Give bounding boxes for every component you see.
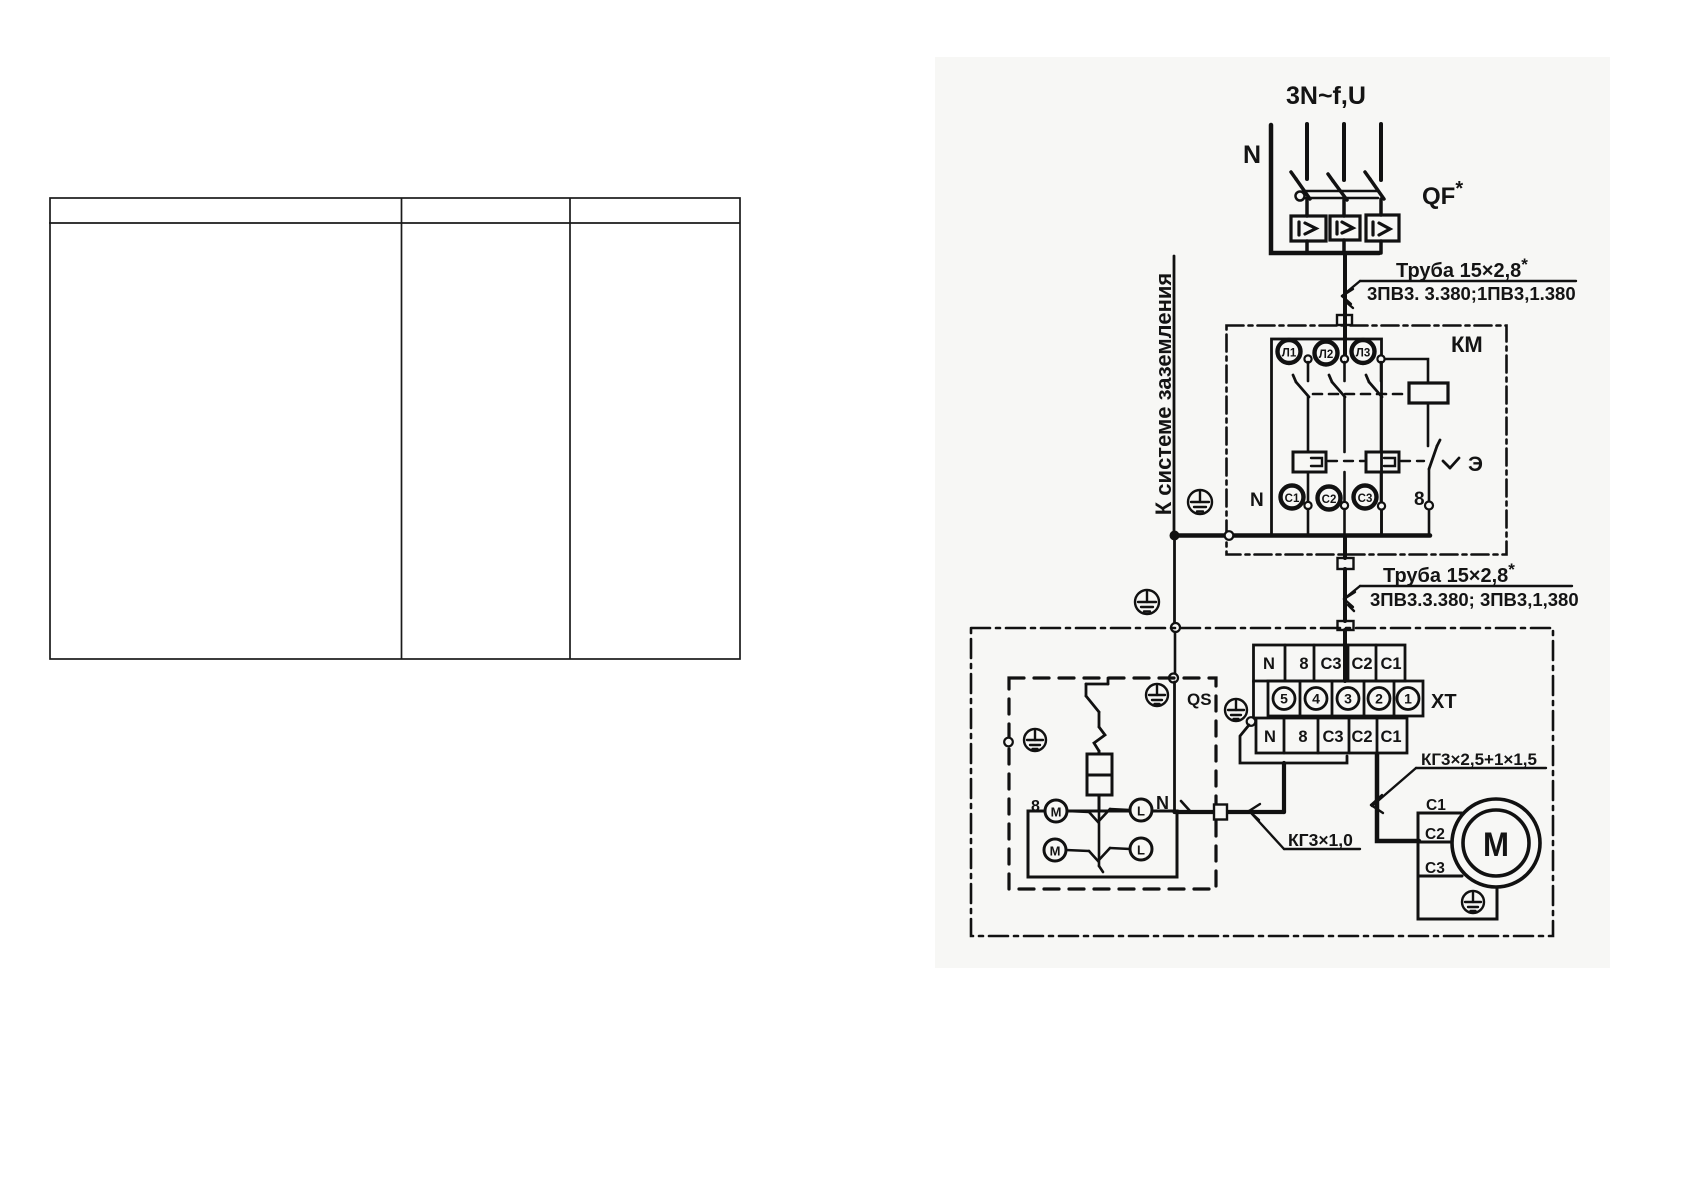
svg-text:КМ: КМ: [1451, 332, 1483, 357]
wire heater drops: [1307, 472, 1310, 501]
wire feeder drop from QF: [1343, 255, 1347, 316]
svg-text:ХТ: ХТ: [1431, 691, 1457, 713]
lamp L1: [1130, 799, 1152, 821]
ground terminal node at XT: [1247, 717, 1256, 726]
svg-text:С2: С2: [1351, 655, 1372, 673]
QS panel box (dashed): [1009, 678, 1216, 889]
svg-text:КГ3×1,0: КГ3×1,0: [1288, 830, 1353, 850]
conduit bushing 2: [1338, 558, 1354, 569]
svg-text:8: 8: [1031, 798, 1040, 815]
QS switch: [1086, 678, 1108, 751]
wire ground link below XT: [1240, 725, 1347, 763]
PE symbol in motor box: [1462, 891, 1484, 913]
terminal C2: [1318, 487, 1341, 510]
wire pole drops: [1307, 397, 1310, 452]
svg-text:С2: С2: [1425, 826, 1445, 843]
contactor KM body: [1272, 339, 1382, 535]
svg-text:М: М: [1050, 844, 1061, 859]
node circle on QS panel edge: [1169, 674, 1178, 683]
terminal C1: [1281, 486, 1304, 509]
svg-text:8: 8: [1414, 489, 1425, 510]
svg-text:С1: С1: [1285, 493, 1300, 505]
selector contact: [1066, 809, 1130, 872]
svg-text:Л3: Л3: [1356, 348, 1370, 360]
wire Л3 to coil: [1385, 359, 1428, 383]
terminal block XT bottom row: [1254, 681, 1408, 753]
circuit breaker QF pole-2 blade: [1328, 174, 1347, 200]
svg-text:КГ3×2,5+1×1,5: КГ3×2,5+1×1,5: [1421, 750, 1537, 769]
terminal Л3: [1352, 340, 1375, 363]
conduit bushing 3: [1338, 621, 1354, 630]
node N label (KM): [1250, 490, 1264, 511]
PE symbol at QS left: [1024, 729, 1046, 751]
svg-text:8: 8: [1298, 728, 1307, 746]
node N label: [1243, 141, 1261, 169]
svg-text:Э: Э: [1468, 453, 1483, 476]
node circle on enclosure edge: [1171, 623, 1180, 632]
neutral bus wire: [1174, 533, 1430, 538]
lamp M1: [1045, 800, 1067, 822]
KM main contact 2: [1343, 362, 1346, 381]
ground system riser wire: [1173, 256, 1176, 535]
label QS: [1187, 690, 1212, 709]
cable marker КГ3х1,0: [1249, 804, 1360, 849]
svg-text:С3: С3: [1322, 728, 1343, 746]
screw terminals 5 4 3 2 1: [1273, 688, 1419, 710]
node 8 label (KM): [1414, 489, 1425, 510]
svg-text:N: N: [1156, 793, 1169, 813]
coil KM: [1409, 383, 1448, 403]
wire feeder below KM: [1343, 538, 1347, 558]
wire neutral drop in QS: [1173, 682, 1176, 812]
bottom pivot circles: [1304, 502, 1433, 510]
wire N cable rise to XT: [1282, 763, 1286, 812]
svg-text:М: М: [1051, 805, 1062, 820]
wire phase B: [1342, 124, 1346, 180]
PE symbol near KM: [1188, 490, 1212, 514]
wire phase A: [1305, 124, 1309, 179]
cable marker: Труба 15x2,8 / 3ПВ3 (second): [1344, 586, 1572, 611]
thermal element KK1: [1293, 452, 1326, 472]
motor M: [1452, 799, 1540, 887]
svg-text:Труба 15×2,8*: Труба 15×2,8*: [1383, 560, 1515, 587]
linkage (dashed): [1313, 393, 1407, 396]
cable marker КГ3х2,5+1х1,5: [1371, 768, 1546, 813]
label Э: [1468, 453, 1483, 476]
svg-text:Л1: Л1: [1282, 348, 1297, 360]
KM main contact 1: [1307, 362, 1310, 381]
label К системе заземления (rotated): [1151, 273, 1176, 515]
terminal Л1: [1278, 340, 1301, 363]
wire phase C: [1379, 124, 1383, 180]
wire terminal stubs to bus: [1307, 509, 1310, 534]
svg-text:С1: С1: [1426, 797, 1446, 814]
label C1 (motor): [1426, 797, 1446, 814]
svg-text:4: 4: [1312, 691, 1320, 707]
PE symbol at XT: [1225, 699, 1247, 721]
circuit breaker QF pole-1 blade: [1291, 172, 1310, 199]
svg-text:1: 1: [1404, 691, 1412, 707]
svg-text:3N~f,U: 3N~f,U: [1286, 82, 1366, 110]
svg-text:С1: С1: [1380, 655, 1401, 673]
svg-text:Труба 15×2,8*: Труба 15×2,8*: [1396, 255, 1528, 282]
svg-text:М: М: [1483, 826, 1509, 864]
wire coil to aux contact: [1427, 403, 1430, 446]
label C2 (motor): [1425, 826, 1445, 843]
QF overcurrent release 2 (I>): [1330, 216, 1360, 240]
wire ground drop to QS panel: [1174, 632, 1177, 674]
cable marker: Труба 15x2,8 / 3ПВ3: [1342, 281, 1576, 308]
svg-text:N: N: [1250, 490, 1264, 511]
QF overcurrent release 1 (I>): [1291, 216, 1326, 241]
svg-text:N: N: [1263, 655, 1275, 673]
svg-text:С2: С2: [1351, 728, 1372, 746]
svg-text:N: N: [1264, 728, 1276, 746]
svg-text:L: L: [1137, 843, 1145, 858]
QF overcurrent release 3 (I>): [1366, 215, 1399, 241]
lamp M2: [1044, 839, 1066, 861]
label C3 (motor): [1425, 860, 1445, 877]
parts table (empty): [49, 198, 740, 659]
contactor KM enclosure (dash-dot): [1227, 326, 1507, 555]
svg-text:L: L: [1137, 804, 1145, 819]
svg-text:С3: С3: [1358, 493, 1373, 505]
svg-text:N: N: [1243, 141, 1261, 169]
svg-text:С1: С1: [1380, 728, 1401, 746]
boundary node circle: [1225, 531, 1234, 540]
node circle on QS left edge: [1004, 738, 1013, 747]
wire pole stubs to releases: [1305, 199, 1309, 216]
lamp L2: [1130, 838, 1152, 860]
svg-text:3: 3: [1344, 691, 1352, 707]
svg-text:5: 5: [1280, 691, 1288, 707]
label QF*: [1422, 178, 1463, 210]
PE symbol inside QS: [1146, 684, 1168, 706]
svg-text:С3: С3: [1320, 655, 1341, 673]
terminal block XT top row: [1254, 645, 1406, 681]
svg-text:С3: С3: [1425, 860, 1445, 877]
svg-text:С2: С2: [1322, 494, 1337, 506]
QF crossbar linkage: [1296, 191, 1379, 201]
label 8 (QS): [1031, 798, 1040, 815]
thermal element KK2: [1366, 452, 1399, 472]
svg-text:К системе заземления: К системе заземления: [1151, 273, 1176, 515]
junction dot: [1170, 531, 1180, 541]
connector square: [1214, 805, 1227, 820]
wire motor cable from XT: [1377, 754, 1419, 841]
wire release outputs to bus: [1305, 241, 1309, 253]
lamp block box: [1028, 811, 1177, 877]
aux contact of KM: [1429, 440, 1459, 469]
svg-text:2: 2: [1375, 691, 1383, 707]
motor terminal box: [1418, 813, 1497, 919]
net label 3N~f,U: [1286, 82, 1366, 110]
svg-text:QS: QS: [1187, 690, 1212, 709]
wire aux drop: [1428, 469, 1431, 501]
svg-text:3ПВ3.3.380; 3ПВ3,1,380: 3ПВ3.3.380; 3ПВ3,1,380: [1370, 589, 1579, 610]
wire N (neutral riser): [1271, 125, 1379, 253]
label N (QS): [1156, 793, 1169, 813]
wire ground drop to lower enclosure: [1173, 538, 1176, 623]
terminal block XT middle row (screws 5..1): [1268, 681, 1423, 716]
terminal Л2: [1315, 342, 1338, 365]
trip linkage (dashed): [1328, 460, 1364, 462]
label XT: [1431, 691, 1457, 713]
pivot contacts top: [1304, 355, 1384, 362]
terminal C3: [1354, 486, 1377, 509]
fuse FU: [1087, 751, 1112, 811]
svg-text:8: 8: [1299, 655, 1308, 673]
svg-text:Л2: Л2: [1319, 349, 1333, 361]
slash on N wire: [1181, 801, 1190, 811]
conduit bushing 1: [1337, 315, 1352, 325]
svg-text:3ПВ3. 3.380;1ПВ3,1.380: 3ПВ3. 3.380;1ПВ3,1.380: [1367, 283, 1576, 304]
label KM: [1451, 332, 1483, 357]
lower equipment enclosure (dash-dot): [971, 628, 1553, 936]
PE symbol at enclosure entry: [1135, 590, 1159, 614]
KM main contact 3: [1380, 362, 1383, 381]
wire N cable to XT: [1175, 810, 1285, 814]
circuit breaker QF pole-3 blade: [1365, 172, 1384, 199]
